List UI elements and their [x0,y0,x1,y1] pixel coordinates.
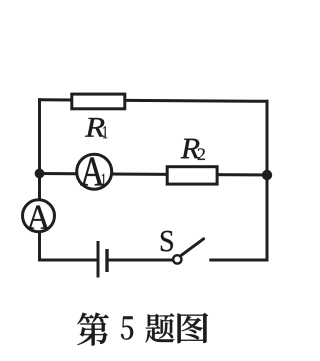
wire top [40,100,268,102]
switch S lever [181,239,204,256]
label A letter [27,206,50,229]
ammeter A1 circle [77,154,112,189]
ammeter A circle [23,200,55,232]
node junction left [35,169,45,179]
wire switch to right rail [211,259,267,262]
label R1 letter R [85,118,105,137]
wire left rail [38,100,41,260]
wire right rail [266,101,269,260]
caption char 5 [121,316,133,339]
switch S pivot circle [173,255,181,263]
battery short plate [105,249,108,272]
label A1 subscript 1 [102,174,106,186]
resistor R1 [72,94,125,109]
label R2 subscript 2 [198,148,205,160]
label R1 subscript 1 [103,126,107,138]
node junction right [262,170,272,180]
caption char 第 [77,313,109,346]
caption char 题 [146,313,175,342]
wire middle branch [40,174,268,176]
battery long plate [97,241,100,278]
label R2 letter R [181,139,200,158]
label A1 letter A [80,158,104,186]
caption char 图 [177,313,208,343]
wire battery to switch [109,259,173,262]
wire bottom left to battery [40,259,97,262]
label S switch [161,231,173,252]
resistor R2 [167,167,217,184]
